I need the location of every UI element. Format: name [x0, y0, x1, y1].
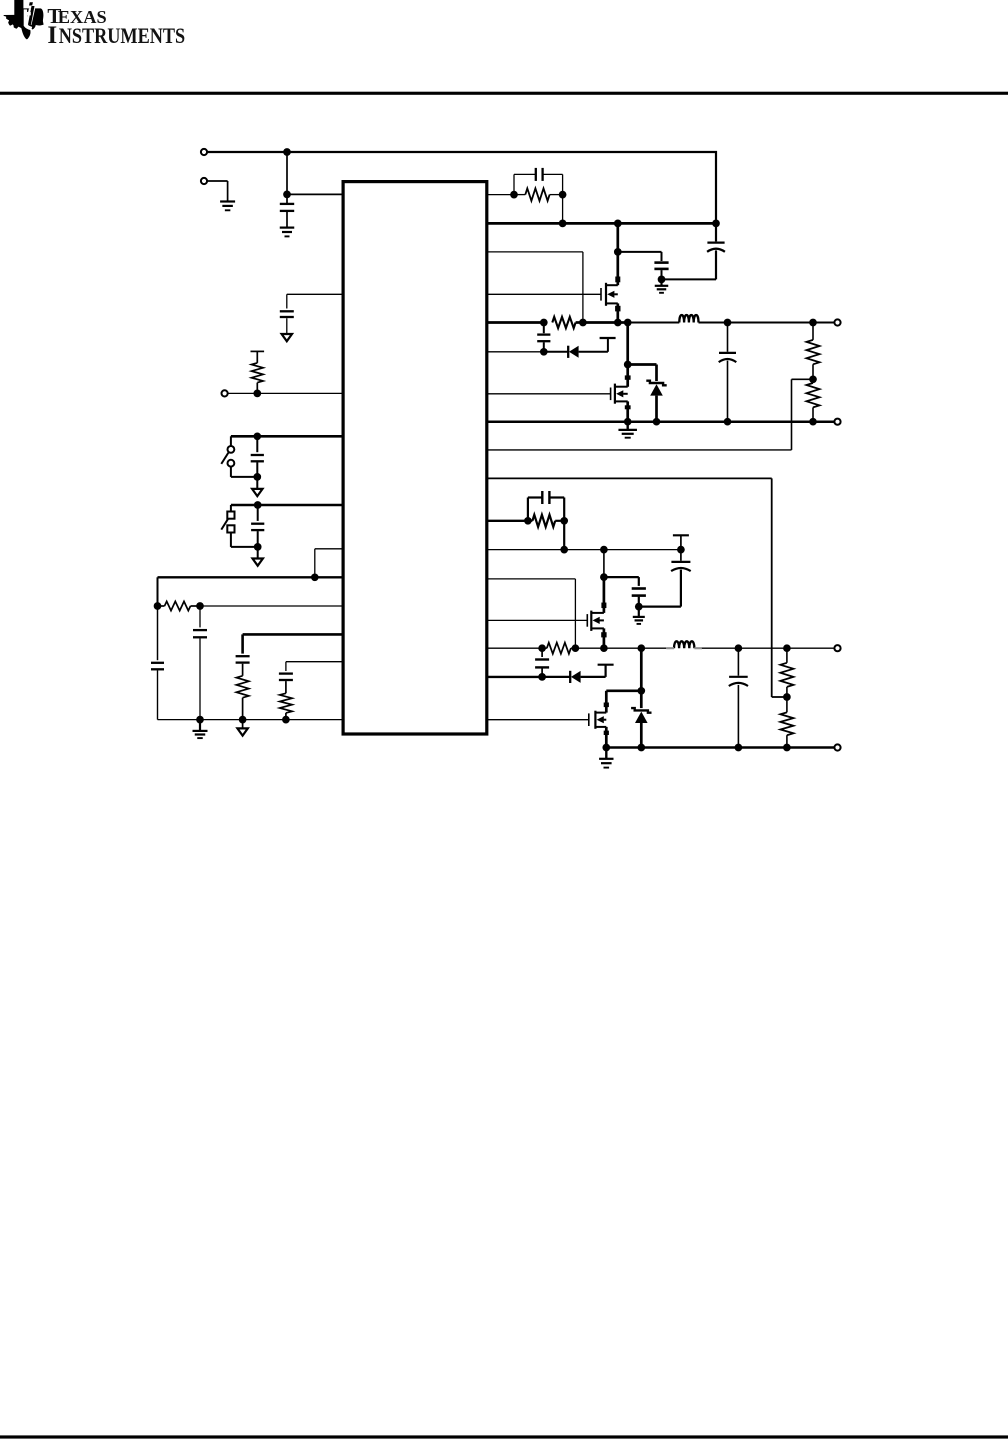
wire pin VIN2 [487, 549, 681, 551]
transistor Q4 low-side FET ch2 [589, 703, 609, 748]
node VOUT1-b [809, 319, 817, 327]
terminal VOUT2- [834, 744, 840, 750]
capacitor C8 SS2 [279, 674, 293, 694]
svg-text:I: I [47, 22, 57, 49]
node Q4 drain tap [637, 687, 645, 695]
wire input gnd [207, 181, 228, 201]
node rail2-d [783, 744, 791, 752]
stub bar above D1 [600, 337, 616, 339]
node VOUT1-a [724, 319, 732, 327]
wire to zener D2 [628, 365, 657, 382]
node COMP2-R [560, 517, 568, 525]
node VDD join [311, 573, 319, 581]
capacitor C10 input bulk [707, 223, 725, 279]
inductor L2 [666, 641, 702, 648]
node rail2-b [637, 744, 645, 752]
node EN1 [253, 432, 261, 440]
wire D3 to stub [581, 665, 606, 677]
node rail2-a [602, 744, 610, 752]
wire SW1 to inductor [628, 322, 680, 324]
node SW1-D [618, 319, 632, 327]
wire pin GATE-L2 [487, 719, 589, 721]
node VIN-A [283, 148, 291, 156]
wire pin VIN thick [487, 222, 716, 225]
footer rule [0, 1435, 1008, 1438]
diode D4 zener catch ch2 [631, 691, 651, 748]
wire D1 to stub [579, 338, 608, 352]
node EN2 [254, 501, 262, 509]
node BOOT1 [614, 248, 622, 256]
node FB1 tap [809, 375, 817, 383]
wire pin SS1 thick [243, 634, 344, 653]
node SW2-D [637, 644, 645, 652]
wire pin VREG [287, 294, 343, 308]
wire C10 to gnd node [662, 278, 717, 280]
wire pin EN2 [231, 504, 343, 507]
wire pin COMP1 [487, 194, 514, 196]
header rule [0, 92, 1008, 95]
node gnd-left [196, 716, 204, 724]
diode D1 [544, 346, 579, 358]
signal ground below C4 [253, 547, 263, 566]
wire pin VCC [200, 605, 343, 607]
wire L1 to output [699, 322, 835, 324]
resistor R7 divider1 top [807, 323, 820, 380]
ground at input terminal [220, 202, 235, 211]
node FB2 tap [783, 693, 791, 701]
diode D2 zener catch ch1 [646, 381, 666, 422]
node rail1-c [724, 418, 732, 426]
wire L2 to output [702, 647, 835, 649]
wire pin SW1 thick [487, 321, 544, 324]
node SW1-C [614, 319, 622, 327]
capacitor C17 snubber2 [535, 648, 549, 677]
capacitor C4 EN2 [251, 505, 264, 547]
capacitor C11 boot1 [654, 263, 668, 280]
resistor R3 SS1 [236, 676, 248, 720]
ground below C16 [633, 607, 645, 624]
wire S2 bottom [231, 546, 258, 548]
wire FB2 pin [487, 478, 787, 697]
node EN2-B [254, 543, 262, 551]
resistor R11 divider2 top [780, 648, 793, 697]
ground below C6 [193, 720, 208, 739]
capacitor C9 comp1 [514, 168, 563, 195]
wire pin SW2 [487, 647, 542, 649]
wire pin RT [228, 392, 343, 394]
terminal RT [222, 390, 228, 396]
capacitor C18 output ch2 [729, 648, 748, 747]
terminal VOUT2+ [834, 645, 840, 651]
transistor Q1 high-side FET ch1 [601, 252, 621, 323]
node SW1-B [576, 319, 587, 327]
node COMP1-L [510, 191, 518, 199]
wire boot1 to cap [618, 252, 662, 261]
wire VIN to pin VIN-left [287, 152, 343, 194]
wire boot1 branch [616, 223, 619, 252]
capacitor C16 boot2 [632, 589, 646, 607]
ground below C1 [280, 228, 295, 237]
resistor R5 comp1 [514, 188, 563, 200]
wire comp1 to VIN [562, 195, 564, 224]
wire pin GATE-H1 [487, 293, 601, 295]
resistor R10 boot snubber2 [542, 643, 575, 654]
terminal VOUT1- [834, 419, 840, 425]
node VIN2-C [677, 546, 685, 554]
wire pin SS2 [286, 662, 343, 671]
node VIN2-B [600, 546, 608, 554]
node COMP2-L [524, 517, 532, 525]
logo text INSTRUMENTS [47, 22, 185, 49]
node SS2-gnd [282, 716, 290, 724]
resistor R4 SS2 [280, 693, 292, 719]
resistor R8 divider1 bottom [807, 379, 820, 421]
wire SW2 mid2 [604, 647, 641, 649]
node SW2-C [600, 644, 608, 652]
node rail2-c [735, 744, 743, 752]
transistor Q2 low-side FET ch1 [611, 323, 631, 422]
wire pin PGND1 rail [487, 420, 835, 423]
wire pin VDD thick [158, 576, 344, 578]
node SW2-B [572, 644, 580, 652]
wire boot2 to cap [604, 577, 639, 586]
wire boot2 branch [603, 550, 605, 578]
signal ground below R3 [237, 720, 247, 736]
wire pin GATE-L1 [487, 393, 611, 395]
node R2-left [154, 602, 162, 610]
wire zener2 branch [640, 648, 643, 691]
wire VIN top rail [207, 152, 716, 223]
node SW2-A [538, 644, 546, 652]
node boot2 gnd [635, 603, 643, 611]
capacitor C2 VREG [280, 311, 294, 334]
capacitor C1 input bypass [280, 194, 294, 226]
logo text TEXAS [47, 4, 106, 28]
ground below rail2 [599, 748, 613, 768]
wire pin ILIM jumper [315, 549, 343, 578]
wire pin COMP2 [487, 520, 528, 522]
switch S2 EN2 [221, 505, 234, 547]
wire to Q4 [606, 691, 641, 713]
capacitor C13 output ch1 [719, 323, 737, 422]
IC U1 dual buck controller [343, 182, 487, 734]
wire C15 to gnd node [639, 605, 681, 607]
wire VDD down [157, 577, 159, 660]
node VIN-C [559, 220, 567, 228]
signal ground below C3 [252, 477, 262, 496]
stub bar above C15 [673, 535, 689, 549]
wire SW2 mid [575, 647, 604, 649]
node rail1-a [624, 418, 632, 426]
node SS1-gnd [239, 716, 247, 724]
terminal VIN+ [201, 149, 207, 155]
wire pin GATE-H2 [487, 619, 588, 621]
node boot1 gnd [658, 276, 666, 284]
signal ground below C2 [282, 334, 292, 341]
wire pin LL1 [487, 351, 544, 353]
wire pin BOOT1 [487, 252, 583, 323]
node VIN-D [614, 220, 622, 228]
wire pin EN1 [231, 435, 343, 438]
wire pin LL2 [487, 676, 542, 678]
node VIN-B [283, 191, 291, 199]
wire S1 bottom [231, 476, 257, 478]
terminal GND input [201, 178, 207, 184]
resistor R2 filter [158, 601, 201, 610]
capacitor C7 SS1 [236, 656, 250, 676]
node VOUT2-a [735, 644, 743, 652]
capacitor C12 snubber1 [537, 323, 550, 352]
node rail1-d [809, 418, 817, 426]
node LL1 [540, 348, 548, 356]
resistor R9 comp2 [528, 515, 564, 527]
wire FB1 [487, 379, 813, 450]
capacitor C3 EN1 [251, 436, 264, 477]
ground below C11 [655, 279, 669, 292]
node RT [253, 390, 261, 398]
terminal VOUT1+ [834, 319, 840, 325]
node VIN-E [712, 220, 720, 228]
node VIN2-A [560, 546, 568, 554]
stub bar above D3 [598, 664, 614, 666]
capacitor C14 comp2 [528, 491, 564, 521]
diode D3 [542, 671, 581, 683]
capacitor C15 input bulk ch2 [671, 550, 691, 607]
node BOOT2 [600, 573, 608, 581]
node SW1-A [540, 319, 548, 327]
capacitor C6 VCC [193, 606, 207, 720]
switch S1 EN1 [221, 436, 234, 477]
node EN1-B [253, 473, 261, 481]
resistor R1 RT [251, 351, 265, 393]
wire pin AGND [158, 719, 344, 721]
node Q2 drain tap [624, 361, 632, 369]
transistor Q3 high-side FET ch2 [587, 577, 606, 648]
node R2-right [196, 602, 204, 610]
wire SW1 mid [583, 321, 618, 324]
wire comp2 down [563, 521, 565, 550]
resistor R12 divider2 bottom [780, 697, 793, 748]
node COMP1-R [559, 191, 567, 199]
svg-text:NSTRUMENTS: NSTRUMENTS [59, 24, 186, 48]
TI logo Texas-state glyph [4, 0, 44, 39]
node LL2 [538, 673, 546, 681]
ground below rail1 [618, 422, 637, 438]
wire SW2 to inductor [641, 647, 666, 649]
resistor R6 boot snubber [552, 317, 575, 328]
node VOUT2-b [783, 644, 791, 652]
wire PGND2 rail [606, 746, 834, 749]
wire pin SW2 sense [487, 579, 576, 648]
capacitor C5 VDD [151, 663, 164, 720]
node rail1-b [653, 418, 661, 426]
inductor L1 [679, 315, 698, 323]
